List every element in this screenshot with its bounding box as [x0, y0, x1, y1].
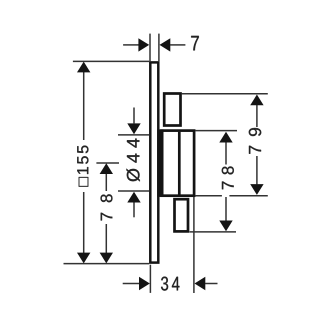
dimension 79 extension lines — [182, 94, 268, 196]
wall plate (side view, 155x155x7) — [150, 62, 158, 262]
dimension 34 leaders — [123, 283, 218, 285]
dimension 7 arrows — [138, 38, 170, 51]
hub left edge merged band with plate — [157, 129, 163, 197]
dimension 34 label — [161, 277, 179, 291]
upper valve button housing — [164, 94, 180, 126]
dimension dia-44 tails — [133, 108, 135, 218]
dimension 78 right arrows — [219, 132, 232, 232]
dimension 78 right extension lines — [190, 131, 237, 232]
dimension dia-44 extension lines — [118, 135, 149, 191]
dimension 78 left arrows — [100, 163, 113, 263]
hub inner line (upper housing edge continuation) — [178, 132, 181, 195]
dimension 34 arrows — [139, 277, 205, 290]
dimension square-155 label — [77, 146, 88, 187]
dimension 7 label — [191, 36, 199, 50]
dimension square-155 extension lines — [64, 61, 150, 263]
dimension 79 arrows — [250, 95, 263, 195]
dimension 79 line — [256, 105, 258, 184]
dimension 7 leaders — [123, 44, 185, 46]
dimension 78 left extension tick (hub axis) — [96, 162, 119, 164]
dimension 7 extension lines — [150, 34, 159, 62]
dimension square-155 line — [83, 71, 85, 254]
dimension 78 right label — [222, 166, 234, 189]
dimension 78 left line — [105, 174, 107, 255]
dimension 34 extension lines — [150, 197, 194, 293]
dimension dia-44 arrows — [127, 123, 140, 202]
dimension 78 left label — [101, 194, 113, 220]
dimension square-155 arrows — [77, 62, 90, 264]
centre hub (thermostat sleeve) — [162, 131, 195, 196]
dimension dia-44 label — [126, 139, 139, 182]
dimension 79 label — [249, 128, 261, 154]
lower valve button housing — [175, 199, 189, 231]
dimension 78 right line — [225, 142, 227, 220]
